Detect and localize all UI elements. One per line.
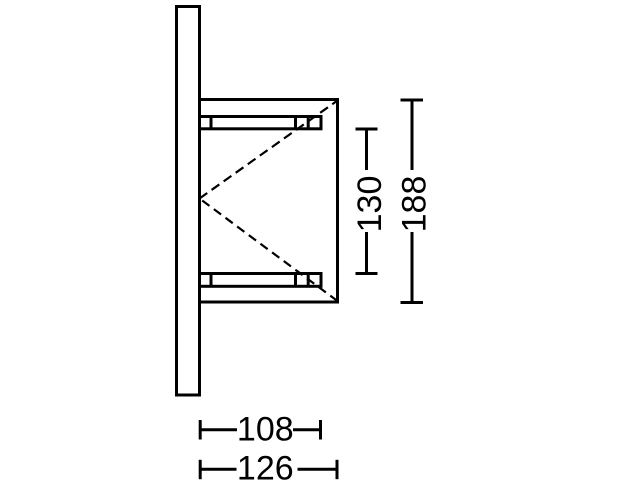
svg-text:126: 126 <box>237 449 294 487</box>
dimension 108 <box>200 410 320 448</box>
dashed swing line lower <box>200 199 338 302</box>
svg-text:130: 130 <box>351 176 389 233</box>
bottom rail <box>200 274 322 287</box>
dimension 130 <box>351 129 389 274</box>
bracket outline <box>198 100 338 303</box>
dimension 126 <box>200 449 337 487</box>
svg-text:108: 108 <box>237 410 294 448</box>
svg-text:188: 188 <box>396 176 434 233</box>
dimension 188 <box>396 100 434 303</box>
dashed swing line upper <box>200 101 338 199</box>
top rail <box>200 117 322 129</box>
wall plate <box>177 7 200 396</box>
